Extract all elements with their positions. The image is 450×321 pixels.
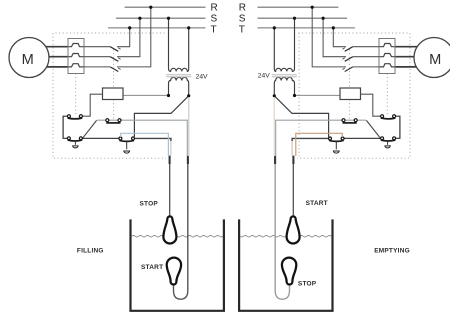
svg-text:S: S	[211, 14, 218, 25]
svg-text:R: R	[211, 3, 218, 14]
svg-text:R: R	[239, 3, 246, 14]
svg-text:STOP: STOP	[140, 200, 159, 207]
svg-text:T: T	[239, 25, 245, 36]
svg-text:M: M	[429, 52, 441, 68]
svg-text:FILLING: FILLING	[77, 248, 104, 255]
svg-text:24V: 24V	[258, 73, 270, 80]
svg-text:START: START	[141, 264, 163, 271]
svg-text:START: START	[306, 200, 328, 207]
svg-text:T: T	[211, 25, 217, 36]
svg-text:EMPTYING: EMPTYING	[374, 248, 410, 255]
svg-text:S: S	[239, 14, 246, 25]
svg-text:24V: 24V	[196, 73, 208, 80]
svg-text:STOP: STOP	[298, 280, 317, 287]
svg-text:M: M	[22, 52, 34, 68]
